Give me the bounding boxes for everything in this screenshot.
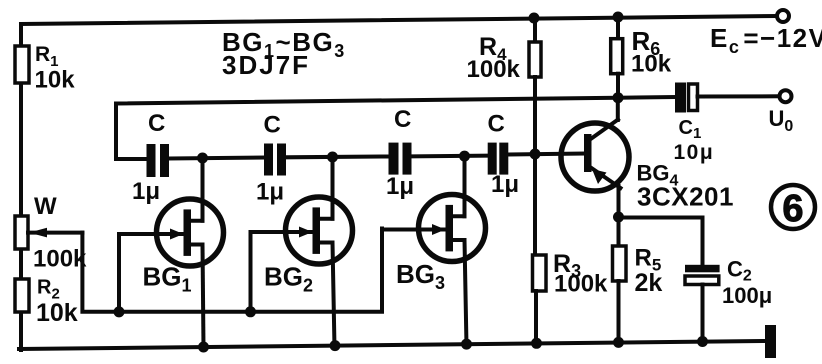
svg-text:1μ: 1μ — [491, 171, 519, 198]
wire BG2 gate — [251, 232, 288, 312]
node BG1 drain junction — [197, 153, 208, 164]
transistor BG3 (JFET) — [419, 195, 486, 262]
wire C2nd to BG2 drain — [286, 155, 389, 160]
svg-text:2k: 2k — [635, 269, 663, 297]
svg-text:3DJ7F: 3DJ7F — [222, 50, 310, 80]
svg-text:W: W — [34, 193, 57, 220]
terminal U0 — [780, 90, 792, 102]
node R4 base junction — [530, 149, 541, 160]
svg-text:10μ: 10μ — [674, 141, 715, 164]
svg-text:1μ: 1μ — [256, 179, 284, 206]
wire BG1 drain up — [201, 158, 205, 221]
resistor R3 — [533, 154, 547, 345]
wire top supply rail — [21, 16, 776, 24]
svg-text:10k: 10k — [631, 51, 672, 78]
node BG2 source ground — [330, 340, 341, 351]
transistor BG4 (BJT) — [561, 120, 629, 192]
wire BG1 source down — [203, 245, 204, 348]
svg-text:C: C — [394, 106, 411, 133]
resistor R6 — [611, 17, 623, 98]
node BG1 source ground — [198, 342, 209, 353]
node collector junction — [613, 92, 624, 103]
wire BG4 collector up — [616, 98, 620, 120]
node BG3 source ground — [461, 339, 472, 350]
svg-text:C: C — [264, 112, 281, 139]
wire BG2 drain up — [331, 157, 335, 219]
wire BG3 drain up — [463, 156, 467, 216]
figure number 6 — [771, 185, 815, 230]
svg-text:100k: 100k — [467, 56, 521, 83]
capacitor C1 (output coupling) — [675, 83, 698, 113]
terminal Ec — [777, 10, 789, 22]
transistor BG1 (JFET) — [157, 199, 224, 266]
resistor R2 — [15, 279, 29, 312]
wire BG4 emitter down — [617, 186, 621, 217]
node BG3 drain junction — [459, 151, 470, 162]
svg-text:3CX201: 3CX201 — [637, 182, 734, 212]
node R4 top — [529, 13, 540, 24]
capacitor C (3rd) — [389, 143, 412, 175]
svg-text:6: 6 — [782, 188, 803, 230]
wire C3rd to BG3 drain — [412, 154, 488, 159]
node BG2 drain junction — [327, 152, 338, 163]
wire gate bias line from W wiper — [82, 229, 382, 312]
svg-text:Ec=−12V: Ec=−12V — [710, 23, 822, 57]
wire BG3 gate — [382, 228, 420, 232]
svg-text:10k: 10k — [35, 67, 76, 94]
wire C1st to BG1 drain — [169, 158, 264, 159]
resistor R1 — [15, 46, 29, 83]
node emitter junction — [613, 212, 624, 223]
capacitor C (4th) — [488, 143, 509, 175]
wire BG2 source down — [333, 243, 335, 348]
wire left rail — [19, 24, 23, 350]
svg-text:100k: 100k — [554, 271, 608, 298]
potentiometer W — [15, 216, 82, 249]
wire C4th to BG4 base — [508, 154, 584, 155]
wire BG3 source down — [465, 240, 467, 346]
svg-text:1μ: 1μ — [132, 178, 160, 205]
wire C1 to output terminal — [698, 94, 779, 98]
capacitor C2 (electrolytic) — [685, 265, 720, 343]
resistor R5 — [613, 217, 627, 344]
node R6 top — [613, 12, 624, 23]
svg-text:1μ: 1μ — [386, 173, 414, 200]
node gate BG1 junction — [114, 306, 125, 317]
capacitor C (2nd) — [264, 144, 286, 176]
wire BG1 gate — [119, 234, 158, 312]
transistor BG2 (JFET) — [286, 197, 353, 264]
svg-text:100μ: 100μ — [722, 283, 772, 308]
svg-text:10k: 10k — [36, 299, 78, 327]
node gate BG2 junction — [245, 306, 256, 317]
svg-text:100k: 100k — [33, 246, 87, 273]
wire feedback line (collector to phase-shift input) — [116, 97, 675, 159]
resistor R4 — [529, 18, 541, 154]
node R3 ground — [531, 338, 542, 349]
capacitor C (1st) — [147, 144, 170, 177]
wire bottom ground rail — [19, 341, 766, 349]
node C2 ground — [697, 336, 708, 347]
wire emitter to C2 — [619, 218, 703, 265]
ground bar — [765, 325, 776, 358]
svg-text:C: C — [148, 110, 165, 137]
svg-text:C: C — [488, 111, 505, 138]
node R5 ground — [613, 337, 624, 348]
